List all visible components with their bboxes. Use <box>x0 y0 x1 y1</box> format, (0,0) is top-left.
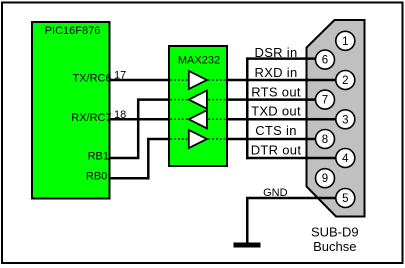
wire TX/RC6 to MAX232 input <box>109 79 170 82</box>
svg-text:CTS in: CTS in <box>255 123 297 138</box>
dotted signal path row3 <box>171 118 227 120</box>
svg-text:TXD out: TXD out <box>251 103 301 118</box>
svg-text:MAX232: MAX232 <box>178 54 220 66</box>
pin 6 <box>316 50 335 69</box>
wire DSR <box>246 57 317 60</box>
wire MAX232 row2 elbow to RB1 <box>138 100 169 158</box>
svg-text:RB1: RB1 <box>88 150 109 162</box>
wire RTS <box>227 98 317 101</box>
wire RB1 <box>109 157 140 160</box>
svg-text:9: 9 <box>322 173 328 185</box>
svg-text:8: 8 <box>322 134 328 146</box>
wire GND <box>247 198 336 244</box>
pin 5 <box>336 189 355 208</box>
pin 1 <box>336 31 355 50</box>
pin 9 <box>316 169 335 188</box>
wire RB0 <box>109 177 150 180</box>
svg-text:TX/RC6: TX/RC6 <box>72 73 111 85</box>
dotted signal path row4 <box>171 138 227 140</box>
wire RX/RC7 to MAX232 <box>109 118 170 121</box>
svg-text:GND: GND <box>263 187 288 199</box>
pin 7 <box>316 90 335 109</box>
IC U2 MAX232 <box>169 46 227 166</box>
pin 3 <box>336 110 355 129</box>
svg-text:7: 7 <box>322 95 328 107</box>
buffer receiver R1 (RTS path) <box>189 91 207 109</box>
wire TXD <box>227 118 337 121</box>
svg-text:RTS out: RTS out <box>251 85 301 100</box>
svg-text:Buchse: Buchse <box>313 239 356 254</box>
pin 2 <box>336 71 355 90</box>
svg-text:6: 6 <box>322 55 328 67</box>
svg-text:5: 5 <box>342 193 348 205</box>
buffer driver T1 (TX path) <box>189 71 207 89</box>
wire CTS <box>227 138 317 141</box>
wire DTR <box>246 157 337 160</box>
pin 4 <box>336 149 355 168</box>
pin 8 <box>316 130 335 149</box>
dotted signal path row1 <box>171 79 227 81</box>
svg-text:DSR in: DSR in <box>255 45 298 60</box>
svg-text:SUB-D9: SUB-D9 <box>311 224 359 239</box>
IC U1 PIC16F876 <box>32 22 112 199</box>
dotted signal path row2 <box>171 99 227 101</box>
wire MAX232 row4 elbow to RB0 <box>148 139 169 178</box>
svg-text:4: 4 <box>342 153 349 165</box>
buffer receiver R2 (TXD path) <box>189 110 207 128</box>
label SUB-D9 Buchse <box>311 224 359 254</box>
svg-text:RB0: RB0 <box>86 171 107 183</box>
svg-text:RX/RC7: RX/RC7 <box>71 112 111 124</box>
ground symbol <box>234 243 261 248</box>
svg-text:3: 3 <box>342 114 348 126</box>
svg-text:2: 2 <box>342 75 348 87</box>
wire RXD <box>227 79 337 82</box>
svg-text:1: 1 <box>342 36 348 48</box>
buffer driver T2 (CTS path) <box>189 130 207 148</box>
svg-text:PIC16F876: PIC16F876 <box>45 25 101 37</box>
svg-text:DTR out: DTR out <box>251 143 302 158</box>
connector body SUB-D9 <box>307 20 365 217</box>
svg-text:RXD in: RXD in <box>255 65 298 80</box>
wire DSR-DTR loopback bus <box>246 57 249 159</box>
